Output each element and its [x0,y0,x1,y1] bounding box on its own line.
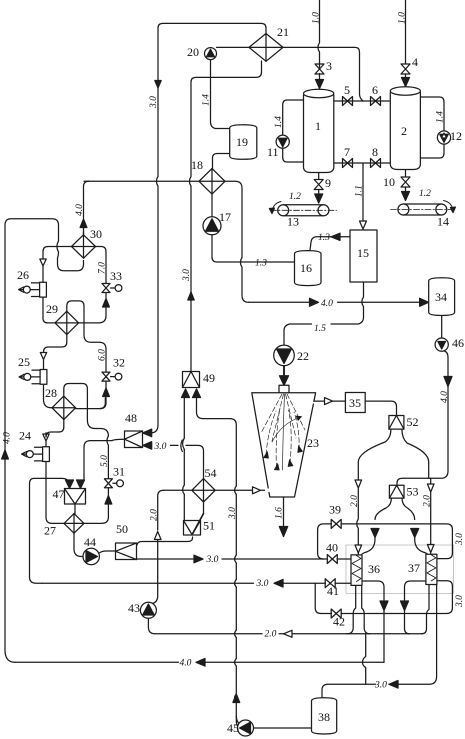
wire 35 to separator 52 [365,401,396,415]
jump arcs on 3.0 riser [235,486,237,702]
component 26 burner [43,276,55,323]
wire valve 42 leg from 3.0 return [315,583,321,613]
svg-text:2.0: 2.0 [350,495,360,507]
arrow 4.0 up to HX18 run [80,219,87,228]
wire HX29 top U to 6.0 valve 32 line [67,301,106,372]
arrow up below valve 32 [103,381,110,396]
HX 29 [55,311,79,334]
svg-text:29: 29 [46,302,58,316]
wire 52 left leg to 2.0 line to column 36 [358,429,391,480]
arrow 3.0 down on left downcomer [157,78,159,88]
valve 8 [371,159,381,168]
svg-text:1.1: 1.1 [355,185,365,197]
svg-text:12: 12 [450,129,462,143]
wire 49 left inlet riser to 51 [183,398,185,521]
separator box 53 [389,485,404,498]
arrow 1.6 down [279,527,287,537]
svg-text:4.0: 4.0 [321,299,333,309]
svg-text:54: 54 [205,466,217,480]
svg-text:1.5: 1.5 [314,324,326,334]
wire 2.0 branch down from HX54 line left end [158,490,164,530]
wire column 37 left side through row A to row C [405,581,426,634]
svg-text:49: 49 [203,371,215,385]
wire pump 43 bottom to 2.0 header [148,618,155,634]
pump 11 [276,135,289,148]
wire tank 38 bottom to pump 45 [254,727,312,729]
wire HX28 horizontal right to valve 32 riser [76,398,106,409]
wire 2.0 right branch from 4.0 header to column 37 [430,478,432,484]
svg-text:22: 22 [297,349,309,363]
component 24 burner [45,447,47,476]
wire HX28 top U crossing to 5.0 drop [64,384,109,437]
wire 47 outlet to HX27 top [74,504,76,514]
svg-text:24: 24 [19,429,31,443]
svg-text:14: 14 [437,215,449,229]
component 25 burner [44,370,52,408]
arrow into vessel 1 top [319,74,321,80]
dryer 23 nozzle [279,385,289,393]
pump 44 [83,548,99,564]
tank 34 [429,278,455,316]
conveyor 14 discharge arrow [444,201,454,212]
svg-text:38: 38 [318,710,330,724]
svg-text:17: 17 [219,210,231,224]
wire HX30 vertical top with 4.0 arrow [83,232,85,236]
svg-text:1.4: 1.4 [436,111,446,123]
wire HX18 vertical through pump 17 to 1.3 line into tank 16 [212,194,295,262]
wire dryer feed from HX54 to dryer 23 [164,489,253,491]
wire 3.0 from HX54 top to 48 lower inlet [171,445,204,478]
dryer 23 body [252,393,316,497]
svg-text:26: 26 [17,268,29,282]
svg-text:21: 21 [277,25,289,39]
svg-text:41: 41 [327,584,339,598]
svg-text:1.4: 1.4 [202,94,212,106]
svg-text:42: 42 [333,615,345,629]
gray frame around columns [346,545,454,594]
valve 4 [405,62,407,64]
mixer box 47 [65,489,86,505]
jogs of 2.0 line at crossings [148,577,157,610]
svg-text:1.0: 1.0 [397,12,407,24]
svg-text:1.3: 1.3 [318,233,330,243]
arrow 4.0 right [310,298,319,306]
svg-text:3.0: 3.0 [455,595,465,608]
wire pump 20 suction / 1.4 line from tank 19 [211,60,230,129]
wire HX27 bottom to pump 44 [74,534,83,557]
svg-text:25: 25 [18,355,30,369]
svg-text:1.0: 1.0 [311,12,321,24]
wire box 15 to tank 16 top 1.3 [310,237,350,251]
wire 52 right leg to 4.0 header tee [402,429,429,478]
arrow 3.0 left to tank 38 [389,681,398,689]
HX 28 [52,396,76,419]
columns 37 coil [426,554,437,584]
box 35 [345,393,365,413]
svg-text:1.3: 1.3 [255,259,267,269]
wire 3.0 tank 38 line left part [322,684,398,697]
svg-text:39: 39 [329,503,341,517]
pump 46 [435,338,448,351]
svg-text:32: 32 [113,356,125,370]
wire HX28 bottom to component 24 [46,420,64,437]
svg-text:46: 46 [452,336,464,350]
separator box 51 [184,521,201,536]
svg-text:30: 30 [90,227,102,241]
valve 7 [343,159,353,168]
svg-text:3.0: 3.0 [455,533,465,546]
conveyor 14 [403,204,441,215]
svg-text:9: 9 [325,176,331,190]
pump 45 [238,720,254,736]
svg-text:8: 8 [372,145,378,159]
HX54 diamond [192,479,215,502]
arrow 4.0 left on header [196,659,205,667]
svg-text:45: 45 [227,721,239,735]
valve 41 [325,579,335,588]
wire column 37 bottom stub left to row C [422,585,430,634]
mixer box 49 [183,372,200,388]
svg-text:3: 3 [326,59,332,73]
arrow up below valve 31 [105,488,112,504]
svg-text:3.0: 3.0 [228,507,238,520]
wire 3.0 riser top run to HX21 bottom [189,61,261,372]
svg-text:2.0: 2.0 [265,630,277,640]
svg-text:4.0: 4.0 [440,391,450,403]
wire tank 34 to pump 46 [441,316,443,339]
wire far-left 4.0 riser [5,219,59,663]
svg-text:4.0: 4.0 [75,204,85,216]
valve 9 [314,180,323,190]
wire row C drop to 3.0 tank line [363,634,366,685]
wire column 36 right side through row A to 4.0 header [362,581,384,662]
wire vessel 2 recirculation loop with pump 12 [420,97,444,158]
open arrow left 2.0 header [284,630,293,637]
wire column 37 bottom stub right to 3.0 tank 38 line [398,585,437,685]
tank 19 [230,125,257,160]
wire box 15 bottom to 1.5 line to pump 22 [284,282,364,345]
svg-text:3.0: 3.0 [154,442,167,452]
svg-text:3.0: 3.0 [149,96,159,109]
wire 3.0 riser mid and lower [236,495,242,727]
valve 6 [371,97,381,106]
arrow 3.0 left on return line [274,579,283,587]
open arrow down to 24 [43,434,49,447]
wire feed 1.0 to valve 4 [405,0,407,62]
wire column 36 bottom stub right to row C [362,585,370,633]
svg-text:1.2: 1.2 [419,189,431,199]
wire 4.0 feed line to tank 34 [249,301,429,303]
open arrow 1.1 into box 15 [360,221,367,229]
dryer 23 spray pattern [261,394,305,470]
svg-text:40: 40 [326,541,338,555]
jump arcs on 49 left riser [183,438,185,494]
svg-text:27: 27 [44,524,56,538]
arrow down on 53 right leg [411,529,419,538]
wire HX30 right to valve 33 7.0 line [96,247,107,284]
mixer box 48 [125,431,143,448]
separator box 52 [389,416,404,430]
svg-text:15: 15 [357,246,369,260]
svg-text:7: 7 [344,145,350,159]
svg-text:4.0: 4.0 [3,432,13,444]
valve 39 [331,519,341,528]
wire vessel 1 bottom to valve 9 [318,172,320,179]
open arrow into column 36 top [355,545,362,553]
wire vessel 1 recirculation loop with pump 11 [283,100,304,162]
arrow 3.0 up above pump 45 [233,694,240,703]
svg-text:2.0: 2.0 [423,495,433,507]
svg-text:37: 37 [408,561,420,575]
arrow down on 53 left leg [371,529,379,538]
wire 49 outlet riser lower part [190,371,192,373]
svg-text:34: 34 [435,290,447,304]
svg-text:19: 19 [236,135,248,149]
svg-text:36: 36 [368,562,380,576]
wire pump 46 4.0 drop [397,351,448,485]
arrow 1.3 left into tank 16 branch [331,233,340,240]
valve 40 [327,555,337,564]
svg-text:48: 48 [125,411,137,425]
svg-text:31: 31 [113,465,125,479]
HX 21 [249,34,283,62]
pump 20 [205,48,217,60]
valve 10 [401,177,410,187]
wire 3.0 return line to HX27 left via 24 junction riser [42,582,351,584]
tank 38 [312,698,337,734]
open arrow up on 2.0 branch [154,532,161,578]
wire 4.0 riser from HX30 top [84,181,90,236]
wire jump of 1.0 line over HX21 run [319,63,321,69]
svg-text:7.0: 7.0 [98,262,108,274]
jump of 51 riser over 3.0-48 line [181,440,183,451]
arrow 3.0 right after box 50 [194,555,203,563]
wire valves 7-8 header and 1.1 drop [334,163,390,221]
pump 43 [140,602,156,618]
wire HX29 bottom to component 25 [44,335,67,353]
wire column 36 bottom stub left to row C [347,585,356,633]
svg-text:20: 20 [187,45,199,59]
wire junction 24 pipe to 47 left inlet and 3.0 return [46,476,64,523]
valve 3 [315,64,324,74]
tank 16 [295,251,322,286]
wire 2.0 header row [155,633,422,635]
open arrow down 52 left leg [355,480,362,545]
svg-text:3.0: 3.0 [206,555,219,565]
arrow 4.0 up far-left riser [2,450,9,459]
svg-text:6: 6 [372,83,378,97]
svg-text:35: 35 [349,396,361,410]
wire 53 left leg to column 36 top [362,498,392,555]
svg-text:52: 52 [407,415,419,429]
svg-text:44: 44 [84,535,96,549]
svg-text:1.4: 1.4 [274,116,284,128]
svg-text:16: 16 [300,261,312,275]
wire valves 5-6 header between vessels [334,100,390,102]
valve 42 [331,609,341,618]
wire pump 44 to box 50 [99,551,115,553]
open arrow down to 26 [40,259,46,276]
conveyor 13 [283,205,323,216]
arrow onto conveyor 13 [318,190,320,195]
wire HX54 bottom into separator 51 [193,502,204,533]
wire feed 1.0 to valve 3 [318,0,320,63]
wire 4.0 header row [15,661,384,663]
wire 49 right inlet from 3.0 riser corner [197,398,237,487]
svg-text:13: 13 [287,215,299,229]
jog of 5.0 drop over 48 outlet [107,436,109,452]
wire 3.0 from box 50 to valve 40 and column 36 [137,558,352,560]
vessel 1 [304,95,334,173]
HX 18 [199,169,225,195]
svg-text:1.6: 1.6 [275,507,285,519]
svg-text:3.0: 3.0 [256,579,269,589]
valve 33 [102,284,115,293]
arrow up below valve 33 [103,293,110,308]
arrows into 49 from below [182,389,201,398]
arrow down on col 37 left line [401,601,409,611]
wire HX18 horizontal run [84,181,249,302]
wire HX30 bottom U loop [57,241,84,271]
svg-text:11: 11 [267,145,279,159]
wire valve 39 line 3.0 [318,524,453,559]
svg-text:47: 47 [53,487,65,501]
svg-text:23: 23 [307,436,319,450]
open arrow to 35 [325,398,333,405]
wire pump 45 to 3.0 riser [236,716,238,727]
wire dryer right outlet to box 35 [314,400,346,402]
wire tank 19 outlet to HX18 top [213,154,230,169]
box 50 [116,543,137,560]
valve 32 [102,372,115,381]
svg-text:50: 50 [116,522,128,536]
box 15 [350,230,377,282]
wire pump 22 to dryer nozzle [283,366,285,377]
valve 5 [343,97,353,106]
svg-text:3.0: 3.0 [374,681,387,691]
svg-text:4.0: 4.0 [180,659,192,669]
wire top header from HX21 top to 3.0 downcomer [158,23,266,78]
conveyor 13 discharge arrow [272,202,281,213]
wire 3.0 downcomer to mixer 48 top inlet [148,88,158,433]
svg-text:53: 53 [407,485,419,499]
wire row A with valve 42 [321,581,452,614]
pump 17 [203,217,221,235]
svg-text:2: 2 [401,124,407,138]
pump 22 [274,345,295,366]
wire HX21 horizontal run pump20 to valves 5,6 riser [217,47,364,101]
svg-text:43: 43 [128,601,140,615]
vessel 2 [390,93,420,170]
wire 48 outlet to 47 right inlet [84,439,125,479]
wire HX30 horizontal to component 26 [43,247,72,260]
arrow into vessel 2 top [405,74,407,77]
arrow 3.0 up on riser [188,292,194,300]
valve 31 with actuator [104,452,117,488]
arrow 4.0 down on pump 46 drop [444,377,452,387]
HX 30 [72,235,96,258]
open arrow into column 37 top [427,545,434,555]
arrows into mixer 47 [66,480,85,489]
svg-text:5.0: 5.0 [100,455,110,467]
svg-text:1: 1 [315,119,321,133]
wire 51 outlet to box 50 [137,537,193,545]
arrow into tank 34 [420,298,429,306]
wire dryer 23 bottom 1.6 discharge [283,497,285,524]
svg-text:28: 28 [45,386,57,400]
open arrow into dryer [253,487,265,494]
svg-text:6.0: 6.0 [98,349,108,361]
columns 36 coil [351,555,362,586]
svg-text:10: 10 [383,175,395,189]
wire 48 top inlet drop from 3.0 downcomer [148,432,152,434]
svg-text:2.0: 2.0 [149,509,159,521]
svg-text:3.0: 3.0 [182,269,192,282]
svg-text:5: 5 [344,83,350,97]
wire vessel 2 bottom to valve 10 [405,169,407,177]
svg-text:4: 4 [412,55,418,69]
HX 27 [64,514,84,534]
arrow down on col 36 right line [380,601,388,611]
pump 12 [437,131,450,144]
open arrow down to 25 [40,353,46,370]
wire 53 right leg to column 37 top [402,498,428,554]
svg-text:33: 33 [110,269,122,283]
svg-text:1.2: 1.2 [289,192,301,202]
svg-text:18: 18 [191,158,203,172]
arrow onto conveyor 14 [405,187,407,192]
svg-text:51: 51 [203,519,215,533]
open arrow down right 2.0 [427,484,434,545]
